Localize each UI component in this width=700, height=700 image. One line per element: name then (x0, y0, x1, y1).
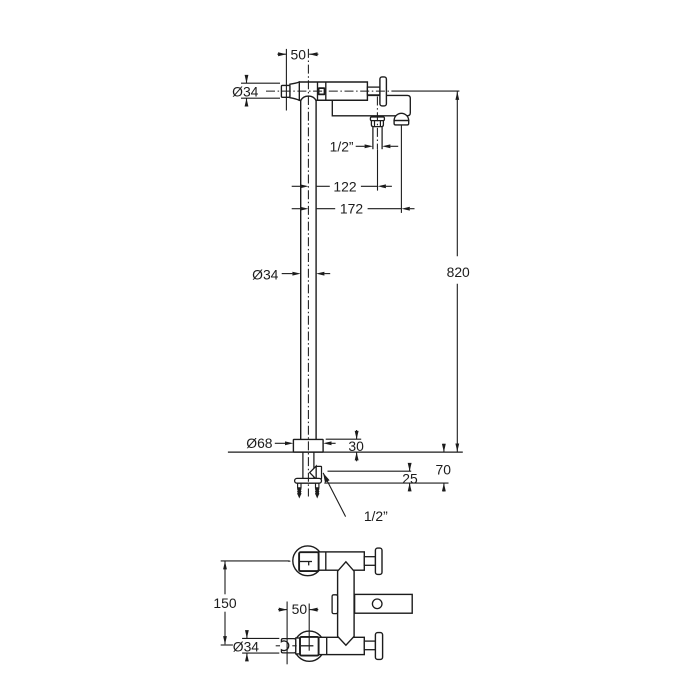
svg-text:50: 50 (290, 47, 306, 63)
svg-text:820: 820 (447, 264, 470, 280)
svg-text:150: 150 (213, 595, 236, 611)
svg-text:50: 50 (292, 601, 308, 617)
svg-text:1/2”: 1/2” (330, 138, 354, 154)
svg-text:122: 122 (333, 178, 356, 194)
svg-text:1/2”: 1/2” (364, 508, 388, 524)
svg-text:Ø34: Ø34 (252, 267, 279, 283)
svg-text:Ø34: Ø34 (233, 638, 260, 654)
svg-text:25: 25 (402, 471, 418, 487)
svg-text:Ø34: Ø34 (232, 83, 259, 99)
svg-text:172: 172 (340, 201, 363, 217)
svg-text:70: 70 (435, 461, 451, 477)
svg-text:30: 30 (348, 438, 364, 454)
svg-text:Ø68: Ø68 (246, 435, 273, 451)
